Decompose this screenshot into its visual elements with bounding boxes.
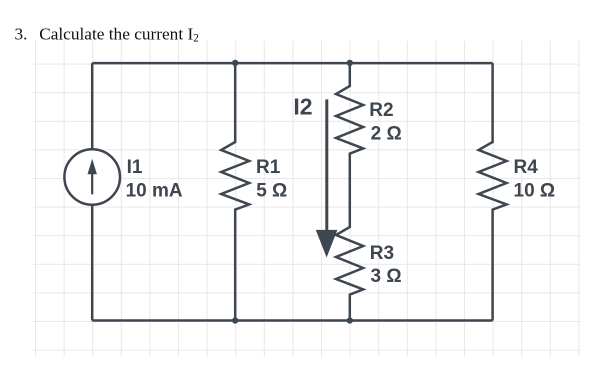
- svg-text:3 Ω: 3 Ω: [371, 266, 402, 287]
- svg-text:10 mA: 10 mA: [126, 181, 183, 202]
- svg-text:R1: R1: [256, 157, 281, 178]
- svg-text:I2: I2: [293, 94, 312, 120]
- svg-text:R3: R3: [370, 243, 394, 264]
- svg-text:10 Ω: 10 Ω: [514, 181, 556, 202]
- svg-text:I1: I1: [127, 157, 143, 178]
- svg-text:Calculate the current I2: Calculate the current I2: [39, 25, 199, 45]
- svg-text:R2: R2: [369, 100, 393, 121]
- svg-text:5 Ω: 5 Ω: [256, 181, 287, 202]
- svg-text:2 Ω: 2 Ω: [371, 123, 402, 144]
- svg-text:3.: 3.: [15, 25, 28, 44]
- svg-text:R4: R4: [514, 157, 539, 178]
